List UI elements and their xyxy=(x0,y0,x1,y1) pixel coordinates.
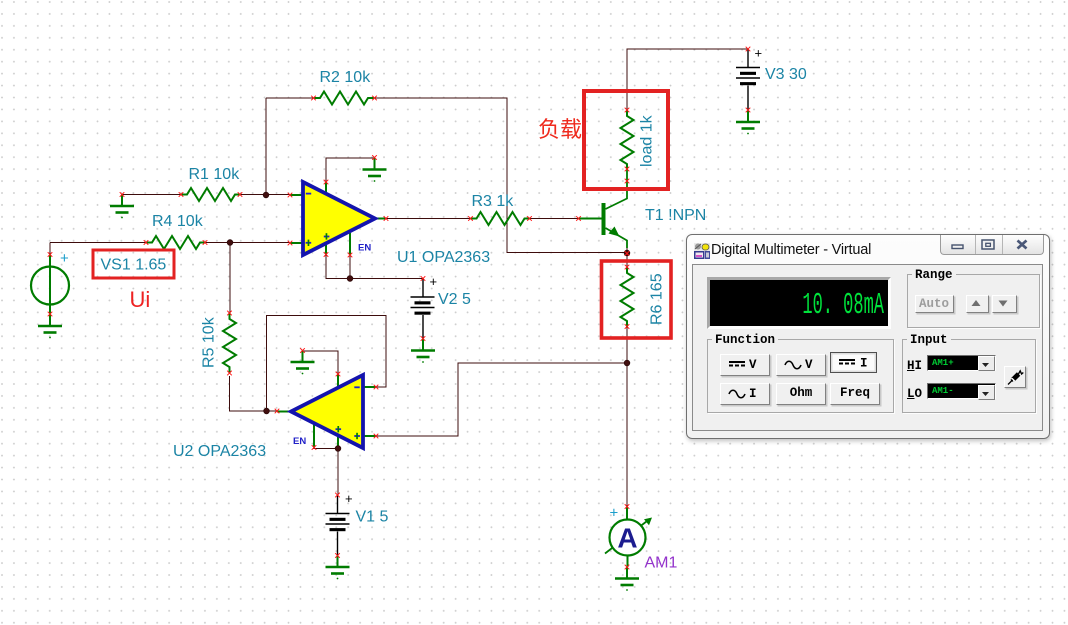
svg-text:V: V xyxy=(749,358,757,372)
svg-text:R3 1k: R3 1k xyxy=(472,193,515,210)
svg-text:T1 !NPN: T1 !NPN xyxy=(645,207,706,224)
svg-text:R4 10k: R4 10k xyxy=(152,213,204,230)
svg-text:U2 OPA2363: U2 OPA2363 xyxy=(173,443,266,460)
svg-text:R6 165: R6 165 xyxy=(649,273,666,325)
svg-text:V1 5: V1 5 xyxy=(356,509,389,526)
svg-text:R5 10k: R5 10k xyxy=(201,316,218,368)
svg-text:R2 10k: R2 10k xyxy=(320,69,372,86)
svg-text:+: + xyxy=(345,491,353,506)
svg-text:R1 10k: R1 10k xyxy=(189,166,241,183)
svg-text:V2 5: V2 5 xyxy=(438,291,471,308)
svg-text:EN: EN xyxy=(293,436,306,447)
svg-text:load 1k: load 1k xyxy=(639,114,656,167)
svg-text:EN: EN xyxy=(358,243,371,254)
svg-text:负载: 负载 xyxy=(538,117,582,142)
svg-text:VS1 1.65: VS1 1.65 xyxy=(101,257,167,274)
svg-text:+: + xyxy=(430,274,438,289)
svg-text:+: + xyxy=(610,505,619,522)
svg-text:+: + xyxy=(755,46,763,61)
svg-text:U1 OPA2363: U1 OPA2363 xyxy=(397,249,490,266)
svg-text:+: + xyxy=(60,250,69,267)
svg-text:A: A xyxy=(617,523,637,554)
svg-text:V: V xyxy=(805,358,813,372)
svg-text:V3 30: V3 30 xyxy=(765,66,807,83)
svg-text:AM1: AM1 xyxy=(645,555,678,572)
svg-text:I: I xyxy=(860,356,868,370)
svg-text:I: I xyxy=(749,387,757,401)
svg-text:Ui: Ui xyxy=(130,287,151,312)
